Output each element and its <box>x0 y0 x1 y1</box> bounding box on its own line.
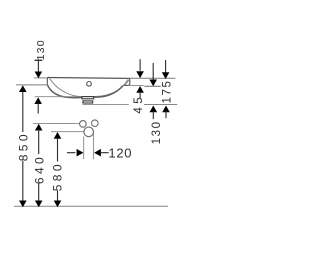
tick line for right 130 dim top <box>144 85 160 87</box>
basin underside reference line extended right <box>83 103 129 105</box>
dim 640: bottom down arrowhead <box>35 201 43 208</box>
small circles center line <box>33 122 79 124</box>
dim 130 right: up arrowhead <box>150 106 158 113</box>
stem of outside up arrowhead <box>37 103 39 114</box>
small mounting hole left <box>80 121 87 128</box>
faucet hole <box>87 82 92 87</box>
floor line <box>14 205 168 207</box>
svg-text:130: 130 <box>35 39 47 60</box>
dim 640: top up arrowhead <box>35 124 43 131</box>
dim 45: lower stem <box>139 92 141 99</box>
washbasin outer shell front curve <box>94 86 123 98</box>
washbasin inner front wall second line <box>124 80 129 85</box>
dim 130 right: top stem <box>152 63 154 80</box>
dim 130 top: stem <box>37 61 39 72</box>
washbasin outer shell rear curve <box>48 85 82 98</box>
large drain circle <box>84 127 94 137</box>
dim 175: down arrowhead <box>162 72 170 79</box>
dim 120: left-pointing arrowhead <box>94 149 101 157</box>
large circle center line <box>51 131 84 133</box>
drain flange <box>82 97 94 99</box>
dim 580: bottom down arrowhead <box>54 201 62 208</box>
dim 130 right: lower stem <box>152 111 154 119</box>
svg-text:175: 175 <box>161 80 173 104</box>
washbasin rim top line <box>48 77 128 80</box>
drain nut <box>83 101 93 103</box>
dim 130 right: down arrowhead <box>149 80 157 87</box>
dim 45: top stem <box>139 59 141 71</box>
extension tick line left of rim top <box>34 77 48 79</box>
svg-text:130: 130 <box>151 120 163 144</box>
dim 850: bottom down arrowhead <box>19 201 27 208</box>
dim 175: top stem <box>165 60 167 73</box>
washbasin inner bowl rear wall <box>50 79 83 97</box>
dim 640: lower stem <box>38 184 40 202</box>
dim 45: down arrowhead <box>136 71 144 78</box>
dim 130 top: down arrowhead <box>35 72 43 79</box>
basin underside reference line right part <box>144 104 177 106</box>
dim 175: lower stem <box>165 111 167 118</box>
svg-text:850: 850 <box>17 131 31 161</box>
dim 130 top: end tick <box>35 59 43 61</box>
svg-text:120: 120 <box>108 146 132 161</box>
extension line from large circle left tangent <box>83 137 85 160</box>
washbasin rear edge <box>47 77 49 85</box>
extension tick line right of rim top to 175 dim <box>129 77 176 79</box>
dim 850: upper stem <box>22 91 24 132</box>
dim 120: left stem <box>67 152 76 154</box>
dim 120: right-pointing arrowhead <box>77 149 84 157</box>
dim 850: lower stem <box>22 161 24 202</box>
dim 45: up arrowhead below rim <box>136 86 144 93</box>
outside up arrowhead under basin bottom line <box>34 97 42 104</box>
basin bottom tick line extended left <box>35 96 79 98</box>
dim 175: up arrowhead <box>162 106 170 113</box>
dim 850: top up arrowhead <box>19 85 27 92</box>
washbasin front edge <box>123 78 130 85</box>
dim 580: upper stem <box>57 138 59 162</box>
extension line from large circle right tangent <box>93 134 95 159</box>
washbasin inner bowl front wall <box>94 80 128 97</box>
wall reference line at 850 height <box>16 84 47 86</box>
svg-text:45: 45 <box>133 94 145 114</box>
tick line right of rim bottom <box>130 85 144 87</box>
dim 580: lower stem <box>57 191 59 202</box>
svg-text:580: 580 <box>51 161 65 191</box>
small mounting hole right <box>92 120 99 127</box>
svg-text:640: 640 <box>33 154 47 184</box>
dim 120: right stem <box>101 152 109 154</box>
dim 640: upper stem <box>38 129 40 154</box>
dim 580: top up arrowhead <box>54 132 62 139</box>
